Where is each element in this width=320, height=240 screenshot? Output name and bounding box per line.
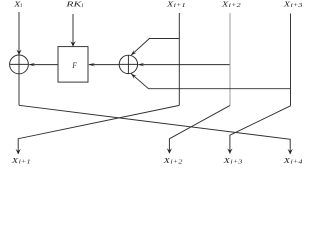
arrow into left XOR top [16, 50, 21, 56]
svg-text:F: F [72, 60, 78, 70]
svg-text:i: i [82, 3, 84, 9]
xor left circle [10, 55, 29, 74]
output arrow 4 [288, 149, 293, 155]
svg-text:i+3: i+3 [230, 159, 242, 165]
wire RK_i vertical [72, 14, 74, 46]
wire X_i+2 vertical (light) [229, 13, 231, 105]
wire X_i+2 to right XOR horizontal [138, 64, 230, 66]
wire right XOR to F input [89, 64, 119, 66]
svg-text:i: i [21, 3, 23, 9]
arrow into right XOR right [138, 63, 145, 67]
xor right circle [119, 55, 137, 73]
svg-text:X: X [166, 0, 174, 9]
wire X_i vertical [18, 12, 20, 105]
svg-text:X: X [222, 156, 230, 165]
wire X_i+1 cross diagonal to output 1 [18, 105, 179, 153]
svg-text:i+1: i+1 [174, 3, 186, 9]
svg-text:i+3: i+3 [291, 3, 303, 9]
output arrow 2 [167, 148, 172, 154]
svg-text:X: X [162, 156, 170, 165]
wire X_i+3 tap to right XOR bottom [131, 74, 290, 89]
wire X_i cross diagonal to X_i+4 output [19, 105, 290, 153]
svg-text:RK: RK [65, 0, 83, 9]
F box [58, 47, 88, 83]
output arrow 3 [227, 148, 232, 154]
arrowheads (dart shapes) [16, 41, 293, 154]
arrow into F right [89, 63, 96, 67]
svg-text:X: X [221, 0, 229, 9]
wire X_i+1 tap to right XOR top [131, 39, 179, 56]
arrow into F top [70, 41, 75, 47]
output arrow 1 [16, 149, 21, 155]
svg-text:X: X [282, 0, 290, 9]
svg-text:i+2: i+2 [170, 159, 182, 165]
svg-text:i+2: i+2 [229, 3, 241, 9]
svg-text:X: X [282, 156, 290, 165]
svg-text:i+4: i+4 [291, 158, 303, 165]
arrow into right XOR top-right (diagonal) [131, 50, 137, 56]
arrow into left XOR right [29, 63, 36, 67]
arrow into right XOR bottom-right (diagonal) [131, 74, 137, 79]
svg-text:i+1: i+1 [19, 159, 31, 165]
wire X_i+3 vertical [290, 14, 292, 106]
wire F output to left XOR [29, 64, 58, 66]
svg-text:X: X [11, 156, 19, 165]
wire X_i+2 cross diagonal to output 2 [169, 105, 230, 153]
wire X_i+1 vertical [178, 13, 180, 105]
wire X_i+3 cross diagonal to output 3 [230, 106, 291, 153]
